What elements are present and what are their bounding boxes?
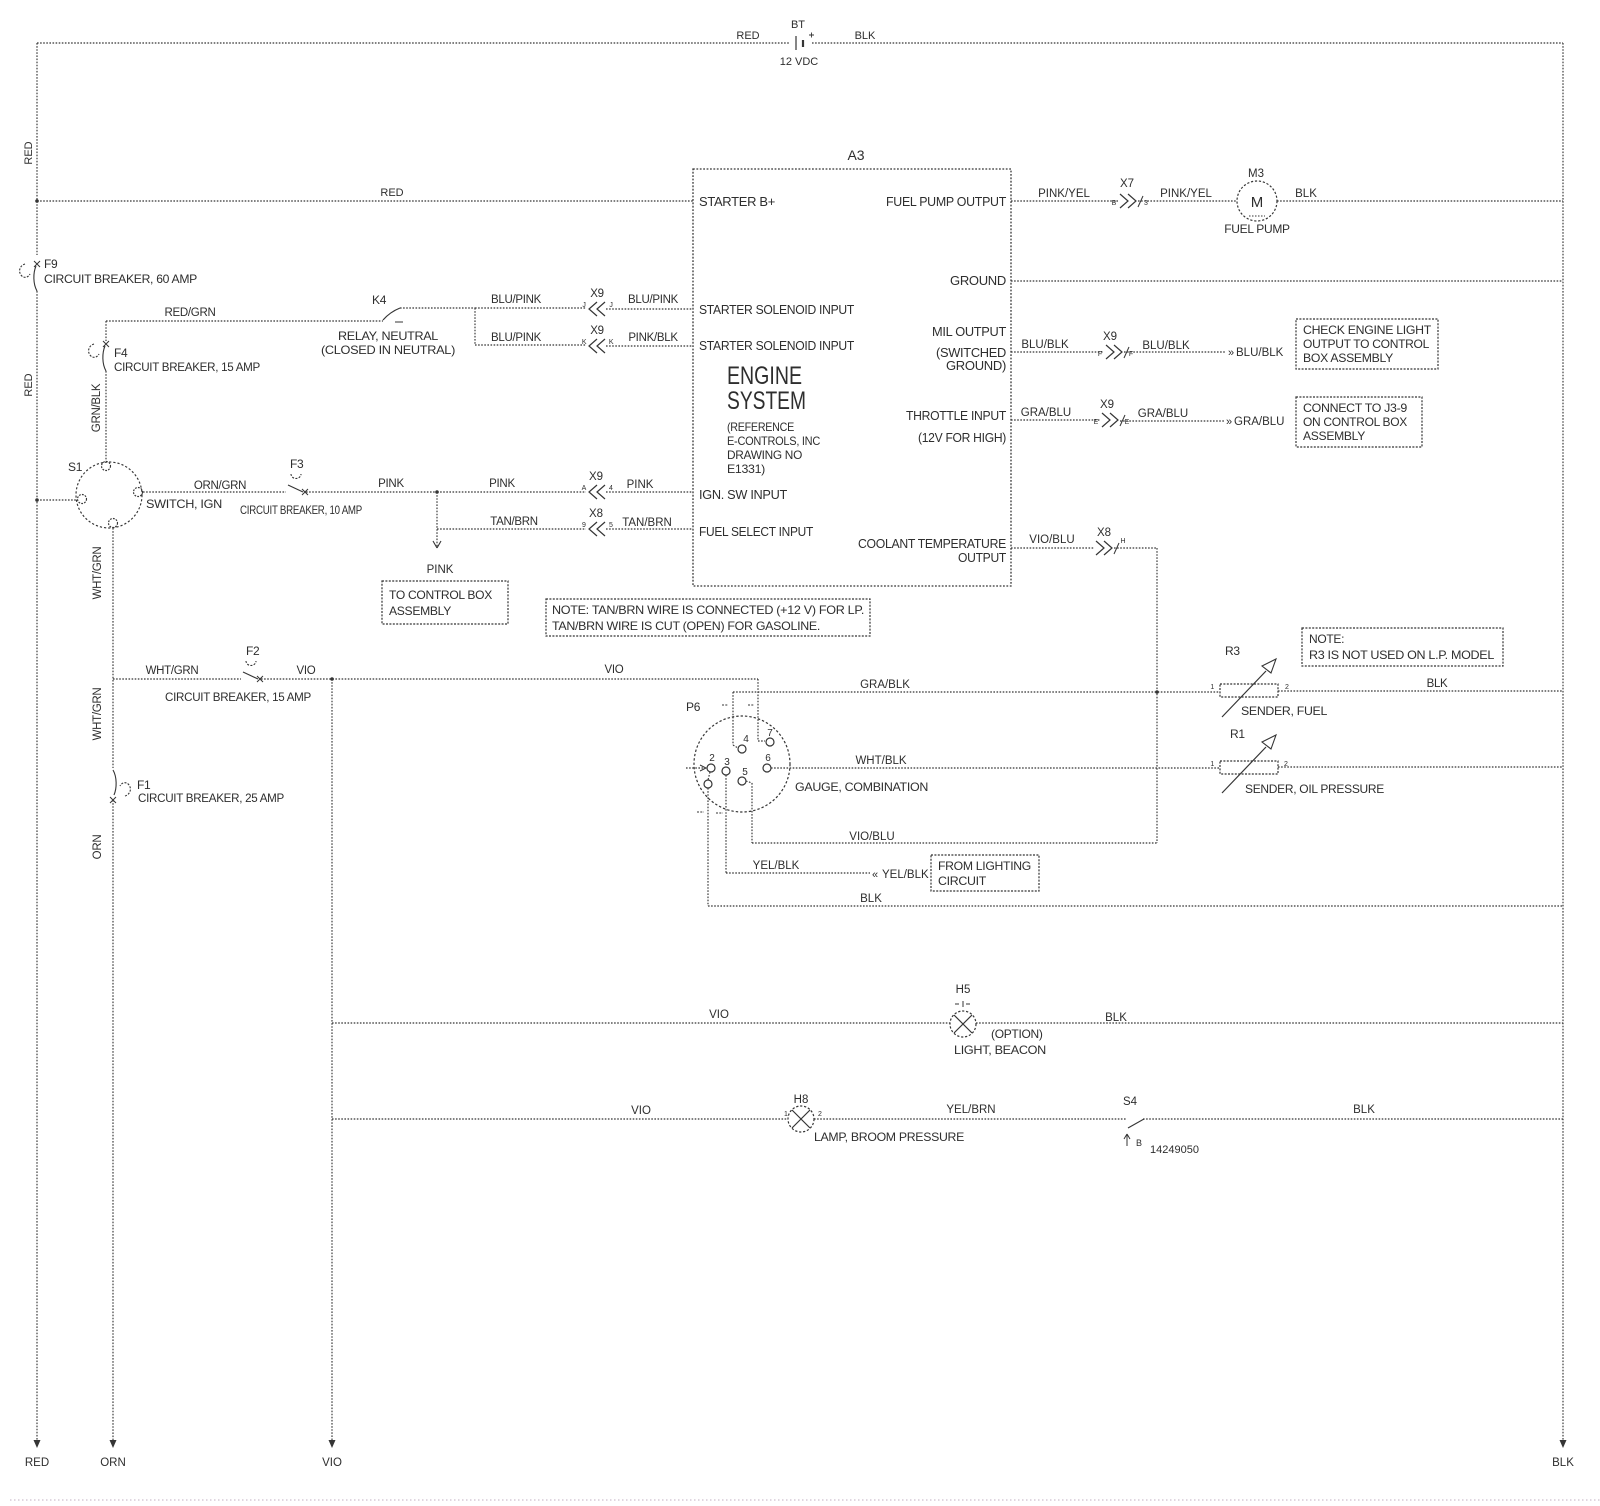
svg-text:STARTER SOLENOID INPUT: STARTER SOLENOID INPUT [699,339,855,353]
svg-text:X9: X9 [1103,331,1117,343]
svg-text:M: M [1251,194,1264,211]
box to control box assembly [382,581,508,624]
svg-text:FROM LIGHTING: FROM LIGHTING [938,859,1031,873]
pin 6 [763,764,771,772]
junction dots [35,199,1159,694]
svg-text:RED: RED [25,1457,49,1469]
svg-text:«: « [872,869,878,881]
svg-text:WHT/BLK: WHT/BLK [855,755,906,767]
wire X9 to A3 solenoid 2 [606,345,693,347]
box connect to J3-9 [1296,397,1422,447]
connector X9 solenoid 1 [589,302,605,316]
svg-text:RED: RED [380,187,403,199]
svg-text:7: 7 [767,728,773,739]
svg-text:TAN/BRN: TAN/BRN [490,516,538,528]
svg-text:BLK: BLK [1552,1457,1574,1469]
svg-text:FUEL SELECT INPUT: FUEL SELECT INPUT [699,525,814,539]
circuit breaker F4 [89,341,109,371]
svg-text:A: A [582,485,587,492]
wire WHT/BLK from pin 6 [771,767,1220,769]
arrow PINK down [433,541,441,548]
wire MIL BLU/BLK [1011,351,1104,353]
connector X7 [1120,194,1143,208]
svg-text:PINK/YEL: PINK/YEL [1160,188,1212,200]
lamp H8 broom pressure [788,1106,814,1132]
svg-text:IGN. SW INPUT: IGN. SW INPUT [699,488,788,502]
arrow ORN bottom [110,1440,117,1448]
svg-text:FUEL PUMP OUTPUT: FUEL PUMP OUTPUT [886,195,1007,209]
wire COOLANT VIO/BLU [1011,547,1094,549]
svg-text:BT: BT [791,19,805,31]
svg-text:K: K [582,339,587,346]
wire left RED vertical [36,43,38,1442]
svg-text:VIO/BLU: VIO/BLU [849,831,894,843]
svg-text:CIRCUIT BREAKER, 15 AMP: CIRCUIT BREAKER, 15 AMP [165,690,311,704]
arrow VIO bottom [329,1440,336,1448]
svg-text:SWITCH, IGN: SWITCH, IGN [146,497,222,511]
connector X8 fuel select [589,522,605,536]
svg-text:4: 4 [609,485,613,492]
motor M3 fuel pump [1237,181,1277,221]
wire right BLK vertical [1562,43,1564,1442]
svg-text:PINK: PINK [489,478,515,490]
svg-text:GRN/BLK: GRN/BLK [91,383,103,432]
svg-text:YEL/BLK: YEL/BLK [882,869,929,881]
svg-text:CHECK ENGINE LIGHT: CHECK ENGINE LIGHT [1303,323,1432,337]
pin 3 [722,767,730,775]
svg-text:VIO: VIO [297,665,316,677]
svg-text:SENDER, OIL PRESSURE: SENDER, OIL PRESSURE [1245,782,1384,796]
svg-text:(SWITCHED: (SWITCHED [936,346,1006,360]
svg-text:NOTE: TAN/BRN WIRE IS CONNECTE: NOTE: TAN/BRN WIRE IS CONNECTED (+12 V) … [552,603,864,617]
resistor R3 sender fuel [1220,659,1278,717]
wire junction to X9 PINK [437,491,586,493]
svg-text:LAMP, BROOM PRESSURE: LAMP, BROOM PRESSURE [814,1130,964,1144]
svg-text:»: » [1226,416,1232,428]
svg-text:GRA/BLU: GRA/BLU [1021,407,1072,419]
wire feed to S1 [37,499,77,501]
svg-text:5: 5 [609,522,613,529]
svg-text:3: 3 [1144,200,1148,207]
svg-text:E: E [1125,419,1130,426]
lamp H5 beacon [950,1001,976,1037]
svg-text:ORN/GRN: ORN/GRN [194,480,246,492]
svg-text:3: 3 [724,757,730,768]
box from lighting circuit [931,855,1039,891]
svg-text:BLU/PINK: BLU/PINK [491,332,542,344]
wire FUEL PUMP OUTPUT PINK/YEL [1011,201,1563,843]
box check engine light [1296,319,1438,369]
svg-text:TAN/BRN WIRE IS CUT (OPEN) FOR: TAN/BRN WIRE IS CUT (OPEN) FOR GASOLINE. [552,619,820,633]
pin 7 [766,738,774,746]
tick marks at gauge top [722,704,754,706]
svg-text:PINK: PINK [378,478,404,490]
svg-text:2: 2 [818,1111,822,1118]
svg-text:GRA/BLU: GRA/BLU [1234,416,1285,428]
svg-text:YEL/BRN: YEL/BRN [946,1104,995,1116]
svg-text:RED: RED [23,141,35,164]
svg-text:DRAWING NO: DRAWING NO [727,448,802,462]
wire stub into pin 2 [686,767,705,769]
pin 5 [738,777,746,785]
wire RED/GRN horizontal to K4 [106,320,383,322]
svg-text:RED: RED [23,373,35,396]
svg-text:J: J [582,302,585,309]
wire junction drop to control box [436,492,438,548]
svg-text:F: F [1129,351,1133,358]
wire X9 to A3 solenoid 1 [606,308,693,310]
svg-text:CIRCUIT BREAKER, 10 AMP: CIRCUIT BREAKER, 10 AMP [240,503,362,517]
svg-text:PINK/YEL: PINK/YEL [1038,188,1090,200]
svg-text:NOTE:: NOTE: [1309,632,1344,646]
wire THROTTLE GRA/BLU [1011,419,1100,421]
tick marks at gauge bottom [697,812,723,813]
svg-text:9: 9 [582,522,586,529]
svg-text:GRA/BLU: GRA/BLU [1138,408,1189,420]
wire GRA/BLK from pin 4 [733,692,1220,748]
wire RED to A3 STARTER B+ [37,200,693,202]
arrow RED bottom [34,1440,41,1448]
svg-text:12 VDC: 12 VDC [780,56,819,68]
svg-text:X8: X8 [589,508,603,520]
note box tan/brn [546,599,870,636]
svg-text:TAN/BRN: TAN/BRN [622,517,672,529]
wire WHT/GRN to F2 [113,678,241,680]
svg-text:RELAY, NEUTRAL: RELAY, NEUTRAL [338,329,439,343]
svg-text:YEL/BLK: YEL/BLK [753,860,800,872]
svg-text:F1: F1 [137,778,151,792]
wire top bus [37,42,1563,44]
svg-text:BLU/PINK: BLU/PINK [491,294,542,306]
svg-text:S4: S4 [1123,1096,1138,1108]
svg-text:R1: R1 [1230,727,1245,741]
wire F2 VIO to gauge [261,678,758,680]
svg-text:F: F [1098,351,1102,358]
wire TAN/BRN junction to X8 [437,528,586,530]
note box R3 [1302,628,1503,666]
svg-text:MIL OUTPUT: MIL OUTPUT [932,325,1007,339]
resistor R1 sender oil pressure [1220,735,1278,793]
svg-text:2: 2 [1284,761,1288,768]
svg-text:ENGINE: ENGINE [727,362,802,390]
svg-text:H: H [1120,538,1125,545]
title ENGINE SYSTEM [727,362,806,415]
svg-text:(CLOSED IN NEUTRAL): (CLOSED IN NEUTRAL) [321,343,455,357]
switch S1 ignition [76,462,143,529]
svg-text:THROTTLE INPUT: THROTTLE INPUT [906,409,1007,423]
svg-text:5: 5 [742,767,748,778]
svg-text:ASSEMBLY: ASSEMBLY [1303,429,1365,443]
svg-text:(12V FOR HIGH): (12V FOR HIGH) [918,431,1006,445]
svg-text:X8: X8 [1097,527,1111,539]
svg-text:SYSTEM: SYSTEM [727,387,806,415]
svg-text:STARTER B+: STARTER B+ [699,195,775,209]
wire VIO vertical to bottom [331,679,333,1442]
circuit breaker F9 [20,261,40,291]
svg-text:BOX ASSEMBLY: BOX ASSEMBLY [1303,351,1393,365]
svg-text:OUTPUT TO CONTROL: OUTPUT TO CONTROL [1303,337,1430,351]
gauge P6 combination [694,716,790,812]
svg-text:H8: H8 [794,1094,809,1106]
wire BLK from R3 [1278,690,1563,692]
svg-text:B: B [1136,1138,1142,1148]
switch S4 [1124,1119,1144,1146]
wire GROUND [1011,280,1563,282]
svg-text:S1: S1 [68,460,83,474]
wire S1 to F3 ORN/GRN [143,492,693,548]
svg-text:OUTPUT: OUTPUT [958,551,1007,565]
wire H8 lamp VIO [332,1118,788,1120]
wire H5 beacon VIO [332,1023,1563,1119]
svg-text:COOLANT TEMPERATURE: COOLANT TEMPERATURE [858,537,1006,551]
svg-text:BLU/BLK: BLU/BLK [1236,347,1284,359]
connector X9 mil [1106,345,1129,359]
engine system module A3 [693,169,1011,586]
wire BLK from pin 2 chain [708,772,1563,906]
svg-text:K: K [609,339,614,346]
svg-text:BLK: BLK [860,893,882,905]
svg-text:VIO: VIO [605,664,624,676]
wire WHT/BLK continue from R1 [1278,766,1563,768]
svg-text:BLK: BLK [1427,678,1448,690]
wire junction vertical [474,308,476,345]
svg-text:CIRCUIT BREAKER, 15 AMP: CIRCUIT BREAKER, 15 AMP [114,360,260,374]
svg-text:BLU/BLK: BLU/BLK [1021,339,1069,351]
relay K4 neutral [383,308,403,322]
svg-text:PINK: PINK [427,564,454,576]
svg-text:WHT/GRN: WHT/GRN [146,665,199,677]
svg-text:VIO/BLU: VIO/BLU [1029,534,1074,546]
svg-text:B: B [1112,200,1117,207]
connector X9 throttle [1102,413,1125,427]
connector X9 solenoid 2 [589,339,605,353]
svg-text:M3: M3 [1248,168,1264,180]
svg-text:H5: H5 [956,984,971,996]
svg-text:GRA/BLK: GRA/BLK [860,679,910,691]
svg-text:CONNECT TO J3-9: CONNECT TO J3-9 [1303,401,1408,415]
svg-text:TO CONTROL BOX: TO CONTROL BOX [389,588,492,602]
svg-text:CIRCUIT: CIRCUIT [938,874,987,888]
svg-text:E-CONTROLS, INC: E-CONTROLS, INC [727,434,821,448]
svg-text:1: 1 [784,1111,788,1118]
wire X9 to A3 PINK [606,491,693,493]
svg-text:SENDER, FUEL: SENDER, FUEL [1241,704,1328,718]
svg-text:BLK: BLK [1105,1012,1127,1024]
pin 4 [738,745,746,753]
bottom arrows and labels [34,1440,1567,1448]
svg-text:»: » [1228,347,1234,359]
svg-text:BLK: BLK [1295,188,1317,200]
svg-text:ORN: ORN [100,1457,126,1469]
svg-text:F2: F2 [246,644,260,658]
gauge wires [686,679,1563,906]
svg-text:X9: X9 [590,288,603,300]
svg-text:RED/GRN: RED/GRN [165,307,216,319]
svg-text:2: 2 [709,753,715,764]
wire RED/GRN F4 branch vertical [106,321,383,461]
wire VIO/BLU from pin 5 [746,781,1157,843]
svg-text:ON CONTROL BOX: ON CONTROL BOX [1303,415,1407,429]
svg-text:VIO: VIO [709,1009,729,1021]
svg-text:ASSEMBLY: ASSEMBLY [389,604,451,618]
pin 2 lower terminal [704,780,712,788]
svg-text:(REFERENCE: (REFERENCE [727,420,794,434]
connector X9 ign [589,485,605,499]
svg-text:GROUND: GROUND [950,274,1006,288]
wire BLU/PINK top to X9 [475,307,586,309]
circuit breaker F1 [110,770,130,803]
svg-text:BLK: BLK [1353,1104,1375,1116]
arrow into pin 2 [697,705,754,813]
wire K4 to junction [400,307,475,309]
svg-text:VIO: VIO [631,1105,651,1117]
circuit breaker F2 [243,661,263,682]
circuit breaker F3 [288,474,308,495]
svg-text:E: E [1094,419,1099,426]
svg-text:P6: P6 [686,700,701,714]
svg-text:(OPTION): (OPTION) [991,1027,1043,1041]
svg-text:A3: A3 [847,147,864,163]
wire F3 to junction PINK [306,491,437,493]
wire VIO into pin 7 [758,679,765,741]
connector X8 coolant [1096,541,1119,555]
svg-text:WHT/GRN: WHT/GRN [92,688,104,741]
wire BLU/PINK bottom to X9 [475,344,586,346]
svg-text:VIO: VIO [322,1457,342,1469]
svg-text:GROUND): GROUND) [946,359,1006,373]
wire X8 to A3 TAN/BRN [606,528,693,530]
svg-text:PINK/BLK: PINK/BLK [628,332,678,344]
svg-text:X9: X9 [589,471,603,483]
svg-text:R3: R3 [1225,644,1240,658]
svg-text:1: 1 [1210,684,1214,691]
svg-text:F9: F9 [44,257,58,271]
svg-text:6: 6 [765,753,771,764]
wire coolant vertical to gauge [1156,548,1158,843]
svg-text:FUEL PUMP: FUEL PUMP [1224,222,1290,236]
svg-text:ORN: ORN [92,835,104,860]
svg-text:STARTER SOLENOID INPUT: STARTER SOLENOID INPUT [699,303,855,317]
svg-text:CIRCUIT BREAKER, 25 AMP: CIRCUIT BREAKER, 25 AMP [138,791,284,805]
svg-text:BLU/BLK: BLU/BLK [1142,340,1190,352]
svg-text:CIRCUIT BREAKER, 60 AMP: CIRCUIT BREAKER, 60 AMP [44,272,197,286]
scan artifact bottom line [10,1499,1600,1501]
svg-text:GAUGE, COMBINATION: GAUGE, COMBINATION [795,780,928,794]
svg-text:14249050: 14249050 [1150,1144,1199,1156]
pin 2 [707,764,715,772]
arrow BLK bottom [1560,1440,1567,1448]
svg-text:K4: K4 [372,293,387,307]
svg-text:RED: RED [736,30,759,42]
svg-text:LIGHT, BEACON: LIGHT, BEACON [954,1043,1046,1057]
svg-text:2: 2 [1285,684,1289,691]
svg-text:1: 1 [1210,761,1214,768]
svg-text:X9: X9 [1100,399,1114,411]
wire YEL/BLK from pin 3 [726,775,870,873]
svg-text:R3 IS NOT USED ON L.P. MODEL: R3 IS NOT USED ON L.P. MODEL [1309,648,1495,662]
svg-text:BLU/PINK: BLU/PINK [628,294,679,306]
svg-text:WHT/GRN: WHT/GRN [92,547,104,600]
svg-text:J: J [609,302,612,309]
svg-text:PINK: PINK [627,479,654,491]
battery BT [796,33,814,51]
svg-text:BLK: BLK [855,30,876,42]
svg-text:E1331): E1331) [727,462,765,476]
svg-text:X7: X7 [1120,178,1134,190]
svg-text:4: 4 [743,734,749,745]
svg-text:X9: X9 [590,325,603,337]
svg-text:F3: F3 [290,457,304,471]
wire WHT/GRN S1 down column [113,528,758,1442]
svg-text:F4: F4 [114,346,128,360]
